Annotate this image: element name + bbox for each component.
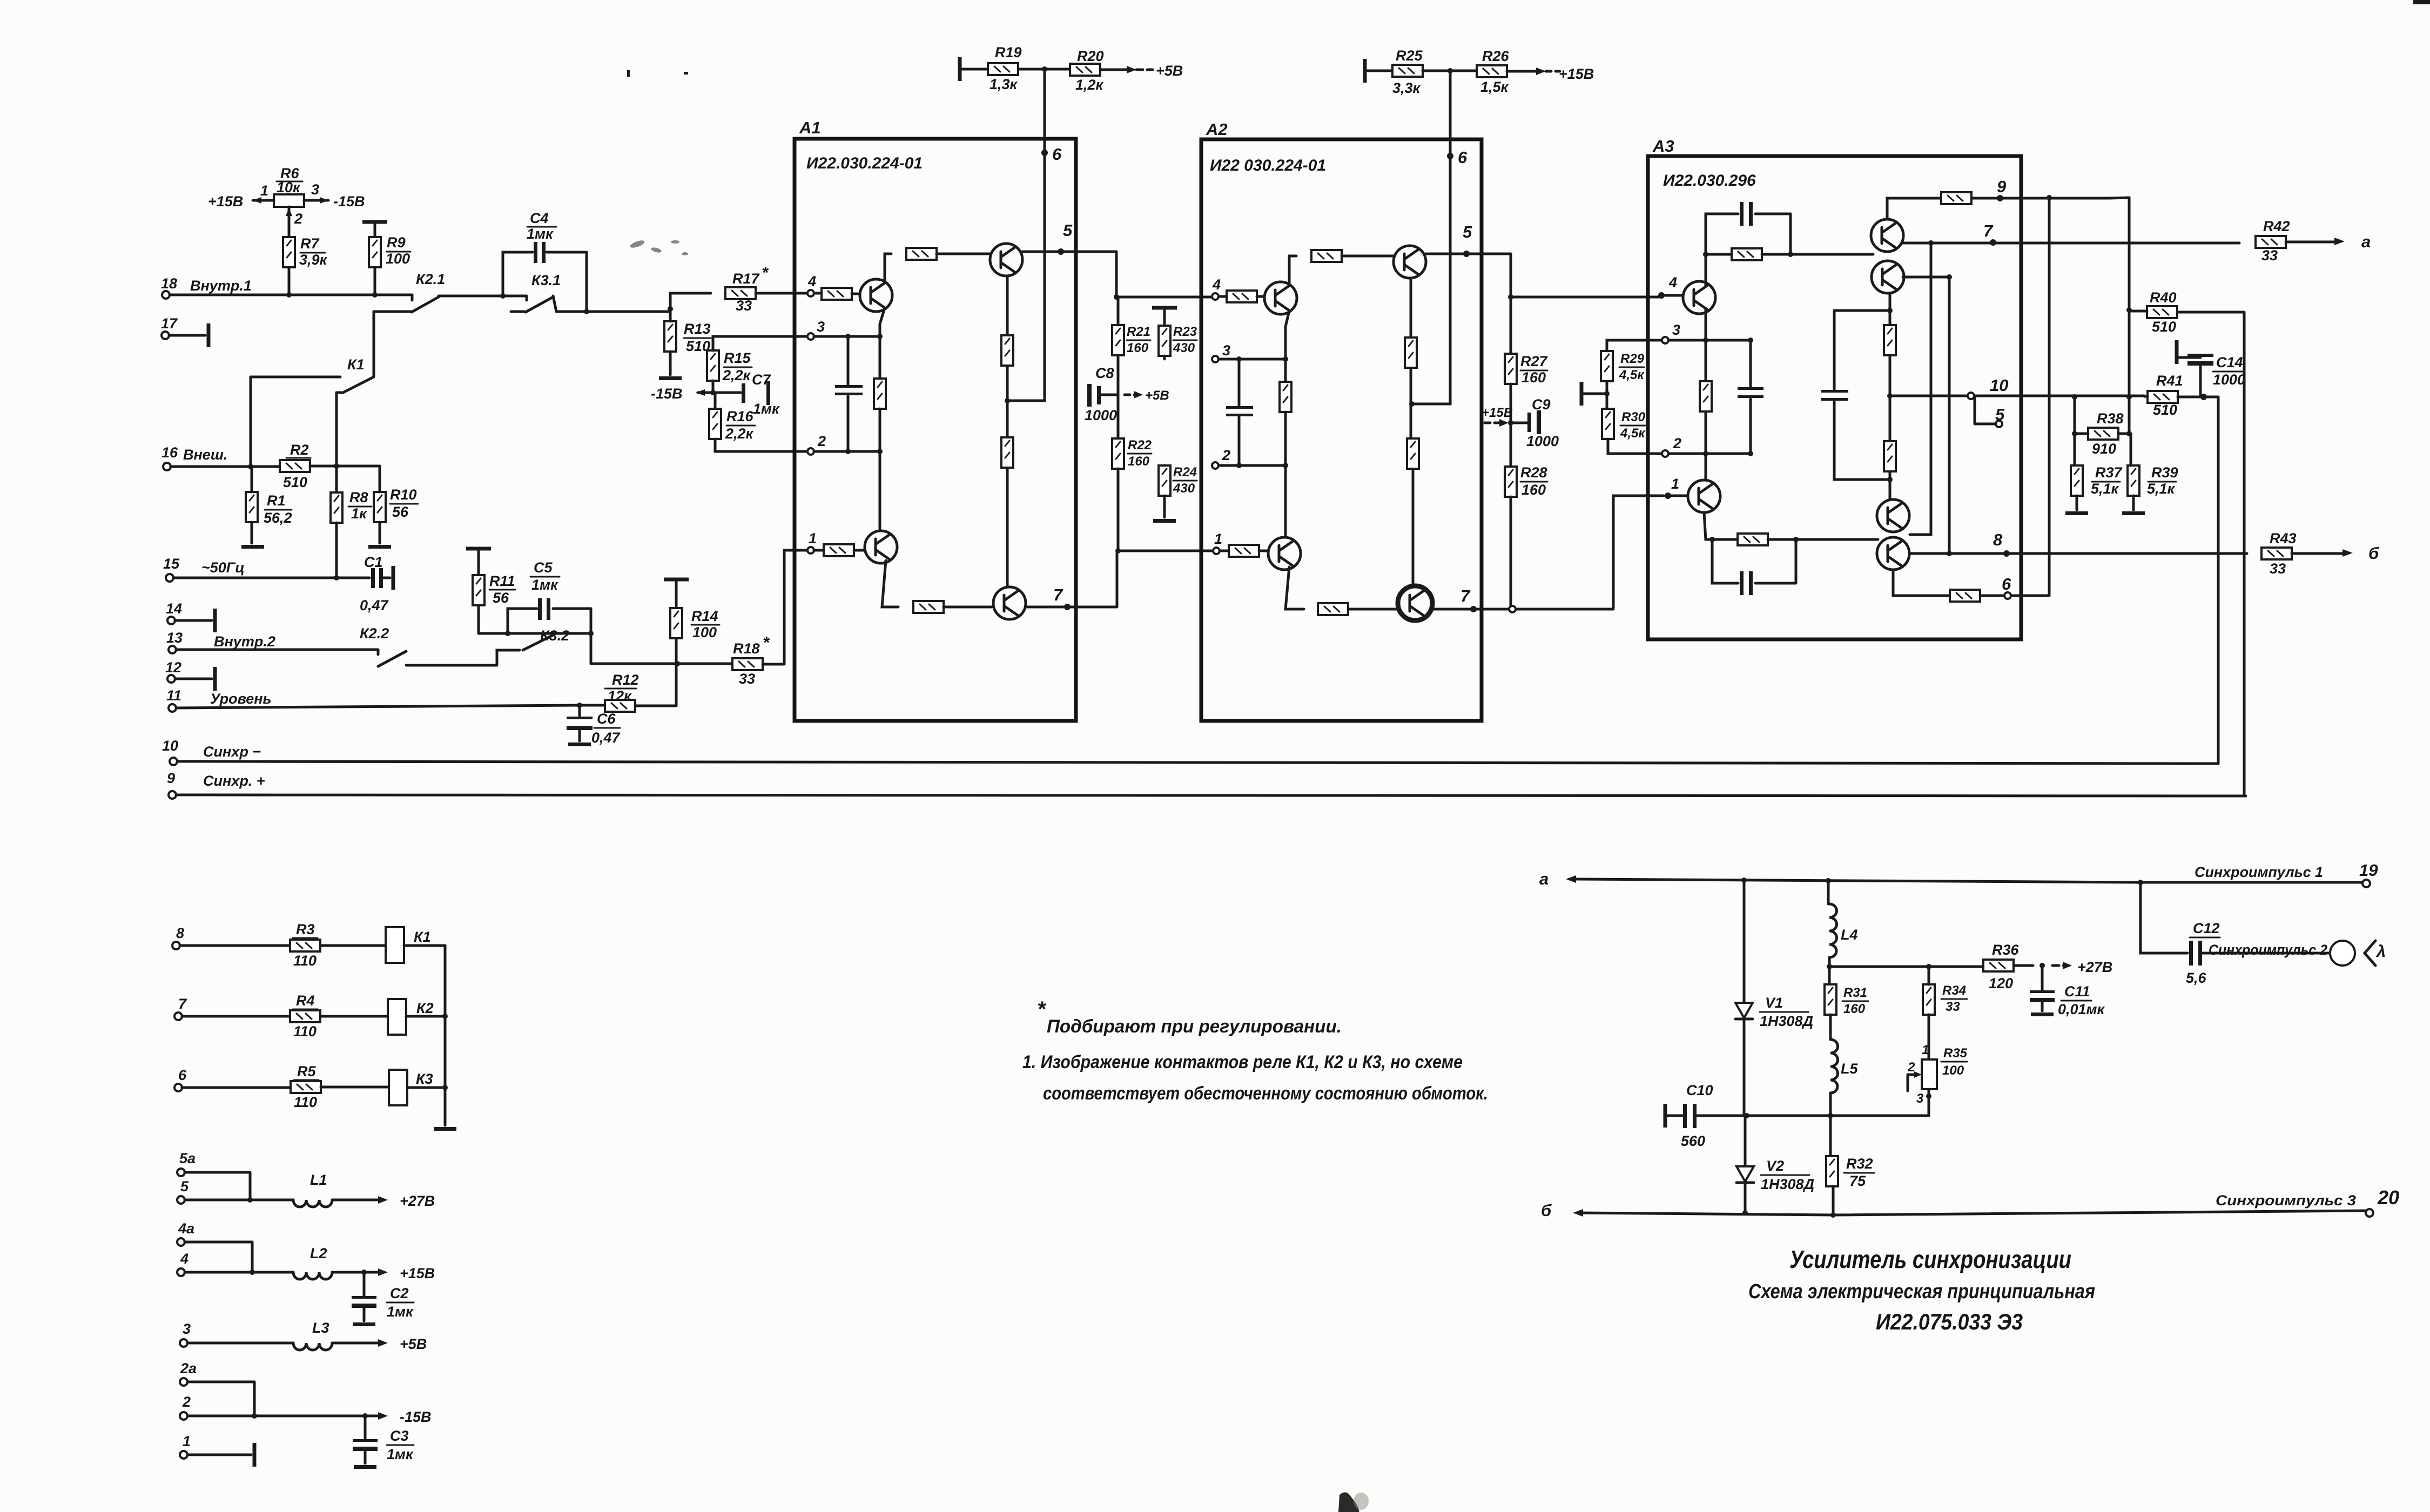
resistor R36 — [1983, 960, 2014, 971]
svg-text:2,2к: 2,2к — [725, 426, 754, 442]
potentiometer R35 — [1922, 1059, 1937, 1089]
resistor R40 — [2147, 306, 2177, 318]
svg-text:+15В: +15В — [208, 193, 243, 210]
pin 4 of A3 — [1658, 292, 1665, 299]
svg-text:L3: L3 — [312, 1320, 329, 1336]
pin 17 — [161, 332, 169, 339]
svg-text:-15В: -15В — [400, 1409, 432, 1425]
svg-text:R2: R2 — [290, 442, 309, 458]
IC block A2 — [1201, 139, 1482, 721]
svg-text:11: 11 — [166, 687, 181, 704]
svg-text:Усилитель синхронизации: Усилитель синхронизации — [1789, 1245, 2071, 1273]
pin 8 wire of A3 — [1909, 552, 2247, 555]
svg-text:33: 33 — [736, 298, 752, 314]
svg-text:Синхр. +: Синхр. + — [203, 773, 265, 789]
pin 5 wire of A2 — [1426, 253, 1511, 255]
pin 13 — [169, 646, 176, 653]
capacitor C3 — [364, 1416, 367, 1439]
svg-text:160: 160 — [1128, 454, 1150, 469]
pin 1 of A3 — [1665, 492, 1671, 499]
svg-text:1к: 1к — [351, 505, 367, 522]
svg-text:Синхроимпульс 3: Синхроимпульс 3 — [2216, 1192, 2356, 1209]
svg-text:Синхр −: Синхр − — [203, 744, 261, 760]
svg-text:4,5к: 4,5к — [1620, 426, 1646, 441]
internal resistor left chain A1 — [874, 379, 886, 409]
relay coil K2 — [388, 999, 406, 1035]
middle chain A1 — [1006, 276, 1009, 585]
svg-text:10: 10 — [1990, 376, 2008, 395]
svg-text:2: 2 — [1673, 435, 1681, 451]
svg-text:К2: К2 — [416, 1000, 434, 1016]
svg-text:И22.075.033 Э3: И22.075.033 Э3 — [1876, 1309, 2023, 1334]
svg-text:R34: R34 — [1942, 983, 1966, 998]
svg-text:И22 030.224-01: И22 030.224-01 — [1210, 157, 1326, 174]
wire L4 tap line — [1829, 966, 1983, 968]
transistor T3 A1 — [990, 244, 1022, 276]
transistor TC A3 — [1872, 261, 1904, 293]
resistor R25 — [1392, 65, 1423, 77]
svg-text:соответствует обесточенному: соответствует обесточенному состоянию об… — [1043, 1083, 1488, 1104]
svg-text:К1: К1 — [347, 356, 365, 373]
svg-text:1: 1 — [1922, 1043, 1929, 1057]
wire T1 collector to top line A2 — [1289, 256, 1296, 286]
vertical TB out to TD base — [1910, 243, 1931, 535]
svg-text:56: 56 — [493, 590, 509, 606]
input resistor pin1 A2 — [1229, 545, 1259, 557]
svg-text:4: 4 — [1212, 276, 1221, 293]
scan artifact smudge — [629, 239, 688, 255]
relay coil K3 — [389, 1070, 407, 1105]
svg-text:3: 3 — [1672, 322, 1680, 338]
svg-text:-15В: -15В — [333, 193, 365, 210]
internal resistor top-left A3 — [1732, 248, 1762, 260]
pin 2a — [180, 1378, 187, 1386]
svg-text:С1: С1 — [364, 554, 383, 570]
svg-text:1000: 1000 — [2213, 372, 2245, 388]
svg-text:R40: R40 — [2150, 289, 2177, 306]
svg-text:R3: R3 — [296, 921, 315, 937]
pin 8 — [172, 942, 180, 949]
svg-text:R39: R39 — [2151, 464, 2178, 481]
pin 7 wire of A2 — [1431, 496, 1664, 609]
svg-text:Схема электрическая принципи: Схема электрическая принципиальная — [1748, 1280, 2095, 1303]
svg-text:Подбирают при регулировании.: Подбирают при регулировании. — [1047, 1016, 1342, 1037]
svg-text:+5В: +5В — [1145, 388, 1169, 403]
pin 10 wire of A3 — [1890, 395, 2144, 397]
svg-text:2,2к: 2,2к — [722, 367, 751, 383]
resistor R9 — [362, 220, 387, 224]
svg-text:510: 510 — [283, 474, 307, 490]
wire A2 pin5 to A3 pin4 — [1511, 254, 1659, 297]
svg-text:6: 6 — [178, 1067, 187, 1083]
resistor R29 — [1601, 351, 1613, 381]
svg-text:1: 1 — [183, 1433, 191, 1449]
svg-text:7: 7 — [1460, 586, 1471, 605]
wire sync plus line — [176, 795, 2246, 796]
svg-text:R19: R19 — [995, 44, 1022, 60]
middle chain A2 — [1411, 279, 1413, 585]
transistor T4 A2 — [1399, 587, 1431, 619]
scan artifact bottom blob — [1338, 1492, 1359, 1512]
svg-text:С6: С6 — [597, 711, 616, 727]
svg-text:3: 3 — [1222, 342, 1230, 359]
svg-text:0,47: 0,47 — [591, 730, 621, 746]
svg-text:R11: R11 — [489, 573, 515, 589]
bypass loop top-left A3 — [1706, 214, 1790, 254]
svg-text:Внутр.2: Внутр.2 — [214, 633, 275, 650]
svg-text:1: 1 — [809, 530, 817, 546]
svg-text:Внеш.: Внеш. — [183, 447, 227, 463]
node R7 junction — [286, 292, 292, 298]
svg-text:75: 75 — [1849, 1173, 1866, 1189]
transistor T1 A1 — [860, 279, 892, 312]
pin 6 — [174, 1084, 182, 1091]
wire K3.2 output to R18 — [591, 663, 731, 665]
wire sync minus line — [177, 761, 2218, 764]
svg-text:С3: С3 — [390, 1428, 409, 1444]
svg-text:V1: V1 — [1765, 995, 1783, 1011]
svg-text:С2: С2 — [390, 1285, 409, 1301]
svg-text:17: 17 — [161, 315, 178, 332]
internal resistor bottom-left A3 — [1738, 534, 1768, 545]
internal resistor bottom A2 — [1318, 603, 1348, 615]
svg-text:110: 110 — [293, 1023, 317, 1039]
svg-text:4: 4 — [180, 1251, 189, 1267]
transistor T1 A2 — [1264, 282, 1297, 314]
scan artifact top-right — [2413, 0, 2430, 4]
resistor R23 — [1159, 326, 1170, 356]
pin 5a — [177, 1169, 185, 1176]
svg-text:2: 2 — [1907, 1060, 1915, 1075]
svg-text:К1: К1 — [414, 929, 431, 945]
svg-text:120: 120 — [1989, 975, 2013, 991]
transistor T3 A2 — [1394, 246, 1426, 278]
svg-text:К3: К3 — [416, 1071, 433, 1087]
svg-text:R23: R23 — [1173, 325, 1197, 339]
svg-text:С14: С14 — [2216, 354, 2243, 370]
internal resistor top A1 — [906, 248, 937, 260]
resistor R38 — [2088, 428, 2118, 440]
svg-text:9: 9 — [167, 770, 175, 786]
svg-text:R12: R12 — [612, 672, 639, 688]
svg-text:а: а — [1539, 869, 1549, 888]
svg-text:R20: R20 — [1077, 48, 1104, 64]
svg-text:1Н308Д: 1Н308Д — [1760, 1013, 1813, 1029]
svg-text:R22: R22 — [1128, 438, 1152, 453]
transistor T2 A2 — [1268, 537, 1301, 570]
resistor R5 — [291, 1081, 321, 1093]
svg-text:λ: λ — [2375, 942, 2386, 961]
resistor R17 — [725, 287, 756, 299]
wire T2 emitter to bottom line A2 — [1285, 567, 1304, 609]
svg-text:И22.030.296: И22.030.296 — [1663, 172, 1756, 190]
svg-text:1,3к: 1,3к — [989, 76, 1018, 92]
svg-text:R21: R21 — [1127, 325, 1150, 339]
resistor R28 — [1505, 467, 1517, 497]
svg-text:R7: R7 — [300, 235, 320, 252]
diode V2 — [1744, 1116, 1747, 1165]
resistor R21 — [1112, 325, 1124, 355]
wire a line (sync pulse 1) — [1573, 879, 2362, 882]
svg-text:С8: С8 — [1095, 365, 1114, 381]
pin 9 — [169, 791, 176, 799]
resistor R31 — [1825, 984, 1836, 1015]
svg-text:8: 8 — [1993, 530, 2003, 549]
inductor L1 — [293, 1200, 332, 1207]
wire K2.1 to K3.1 — [439, 296, 527, 300]
svg-text:R27: R27 — [1520, 353, 1549, 369]
resistor R32 — [1826, 1156, 1838, 1186]
pin 3 — [180, 1339, 187, 1347]
middle chain A3 — [1889, 293, 1892, 500]
svg-text:160: 160 — [1843, 1002, 1866, 1016]
resistor R22 — [1112, 438, 1124, 469]
svg-text:R10: R10 — [390, 487, 417, 503]
internal resistor top A2 — [1311, 250, 1342, 262]
svg-text:13: 13 — [166, 630, 183, 646]
svg-text:6: 6 — [2002, 575, 2011, 593]
svg-text:И22.030.224-01: И22.030.224-01 — [806, 154, 923, 172]
svg-text:R30: R30 — [1621, 410, 1646, 424]
internal resistor bottom A1 — [913, 601, 944, 613]
diode V1 — [1743, 880, 1746, 1002]
node C4 loop left — [500, 293, 506, 299]
svg-text:5: 5 — [1995, 405, 2005, 424]
svg-text:14: 14 — [166, 600, 182, 617]
svg-text:510: 510 — [2153, 402, 2177, 418]
svg-text:2а: 2а — [180, 1360, 197, 1376]
svg-text:2: 2 — [294, 211, 302, 227]
wire TB collector to pin 9 — [1887, 198, 1943, 219]
svg-text:12к: 12к — [608, 688, 632, 704]
pin 4 — [177, 1268, 185, 1276]
svg-text:5: 5 — [180, 1178, 189, 1194]
resistor R19 — [988, 63, 1018, 75]
transistor TB A3 — [1871, 219, 1903, 252]
wire T1 emitter chain — [880, 308, 885, 378]
svg-text:1,2к: 1,2к — [1075, 77, 1104, 93]
transistor T2 A1 — [865, 531, 897, 563]
node 6 A2 — [1447, 153, 1453, 159]
svg-text:R14: R14 — [691, 608, 718, 624]
svg-text:R37: R37 — [2095, 464, 2123, 481]
pin 3 of A3 — [1662, 337, 1668, 343]
capacitor C10 — [1664, 1104, 1667, 1128]
svg-text:16: 16 — [161, 444, 178, 461]
svg-text:2: 2 — [1222, 447, 1230, 463]
wire TA collector up to top line — [1706, 254, 1732, 286]
svg-text:430: 430 — [1173, 341, 1195, 355]
svg-text:+15В: +15В — [400, 1265, 435, 1281]
svg-text:3,3к: 3,3к — [1392, 80, 1421, 96]
svg-text:5,1к: 5,1к — [2091, 481, 2119, 497]
pin 18 — [162, 291, 170, 299]
wire TF emitter to bottom line A3 — [1704, 512, 1738, 539]
svg-text:2: 2 — [182, 1394, 191, 1410]
pin 4a — [177, 1238, 185, 1246]
svg-text:0,47: 0,47 — [360, 597, 389, 613]
pin 16 — [163, 463, 171, 470]
svg-text:1мк: 1мк — [753, 401, 780, 417]
wire TA emitter chain A3 — [1705, 309, 1707, 480]
svg-text:5,1к: 5,1к — [2147, 481, 2176, 497]
svg-text:К2.1: К2.1 — [416, 271, 445, 287]
wire T2 emitter to bottom line — [882, 561, 898, 607]
wire K3.1 output to R17 — [553, 293, 711, 312]
svg-text:3: 3 — [1916, 1091, 1924, 1106]
svg-text:*: * — [763, 633, 770, 652]
svg-text:100: 100 — [692, 624, 717, 640]
svg-text:R25: R25 — [1396, 48, 1423, 64]
capacitor top-left A3 — [1740, 202, 1744, 226]
svg-text:R31: R31 — [1843, 986, 1867, 1000]
svg-text:20: 20 — [2377, 1186, 2399, 1209]
svg-text:1,5к: 1,5к — [1480, 79, 1509, 95]
svg-text:R8: R8 — [349, 489, 368, 505]
svg-text:510: 510 — [2152, 319, 2176, 335]
svg-text:5а: 5а — [179, 1150, 196, 1166]
pin 4 of A1 — [807, 290, 814, 296]
svg-text:R15: R15 — [724, 350, 751, 366]
svg-text:R13: R13 — [684, 321, 711, 337]
resistor R18 — [732, 658, 763, 670]
svg-text:-15В: -15В — [651, 386, 683, 402]
input resistor pin1 A1 — [824, 544, 854, 556]
svg-text:б: б — [1541, 1201, 1552, 1220]
svg-text:33: 33 — [1946, 1000, 1960, 1014]
input resistor pin4 A2 — [1227, 291, 1257, 302]
internal resistor pin9 A3 — [1941, 192, 1971, 204]
resistor R34 — [1923, 984, 1935, 1015]
svg-text:0,01мк: 0,01мк — [2058, 1001, 2105, 1017]
resistor R7 — [283, 237, 295, 267]
input resistor pin4 A1 — [822, 288, 852, 300]
power bar for R25 — [1363, 59, 1367, 83]
wire K1 lower contact chain — [335, 393, 338, 492]
svg-text:160: 160 — [1522, 369, 1546, 386]
pin 7 — [174, 1013, 182, 1020]
resistor R4 — [290, 1010, 320, 1022]
svg-text:1: 1 — [1214, 531, 1222, 547]
pin 12 — [167, 675, 175, 683]
wire A1 pin7 to A2 pin1 — [1115, 548, 1121, 553]
svg-text:+15В: +15В — [1559, 66, 1594, 82]
pin 10 — [170, 758, 177, 765]
transistor TE A3 — [1877, 537, 1909, 570]
svg-text:12: 12 — [165, 659, 181, 676]
svg-text:К3.2: К3.2 — [540, 627, 569, 644]
resistor R3 — [290, 940, 320, 951]
pin 3 of A1 — [807, 333, 814, 340]
pin 3 of A2 — [1212, 356, 1219, 362]
svg-text:+27В: +27В — [2077, 959, 2112, 975]
capacitor C11 — [2041, 966, 2044, 990]
svg-text:V2: V2 — [1766, 1158, 1784, 1174]
svg-text:100: 100 — [386, 251, 410, 267]
resistor R42 — [2256, 236, 2286, 248]
svg-text:7: 7 — [1053, 585, 1063, 604]
wire b line (sync pulse 3) — [1580, 1211, 2368, 1215]
node bus3 T1 — [877, 334, 883, 339]
svg-text:L4: L4 — [1841, 927, 1858, 943]
svg-text:5,6: 5,6 — [2186, 970, 2207, 986]
resistor R8 — [331, 492, 342, 523]
svg-text:+5В: +5В — [1156, 63, 1183, 79]
compensation loop A3 — [1834, 310, 1890, 480]
pin 7 wire of A1 — [1026, 551, 1117, 607]
svg-text:С9: С9 — [1532, 396, 1551, 413]
svg-text:R16: R16 — [726, 408, 754, 424]
connector sync pulse 2 — [2330, 941, 2355, 966]
scan artifact top marks — [627, 70, 630, 77]
resistor R43 — [2261, 548, 2292, 559]
svg-text:5: 5 — [1463, 222, 1472, 241]
wire C12 branch — [2140, 882, 2187, 953]
resistor R12 — [605, 700, 635, 712]
svg-text:9: 9 — [1997, 177, 2007, 196]
resistor R30 — [1602, 409, 1614, 439]
pin 7 wire of A3 — [1903, 242, 2239, 245]
svg-text:R38: R38 — [2097, 410, 2124, 427]
svg-text:R1: R1 — [267, 492, 286, 509]
svg-text:10: 10 — [162, 738, 178, 754]
svg-text:33: 33 — [739, 671, 755, 687]
svg-text:7: 7 — [178, 996, 187, 1012]
capacitor C2 — [363, 1272, 366, 1296]
svg-text:560: 560 — [1681, 1133, 1705, 1149]
svg-text:1. Изображение контактов рел: 1. Изображение контактов реле К1, К2 и К… — [1022, 1052, 1463, 1072]
resistor R26 — [1477, 65, 1507, 77]
svg-text:С5: С5 — [534, 559, 553, 576]
pin 1 of A1 — [807, 547, 814, 553]
relay coil K1 — [386, 927, 404, 963]
svg-text:3: 3 — [817, 319, 825, 335]
svg-text:430: 430 — [1173, 481, 1195, 496]
svg-text:С4: С4 — [530, 210, 549, 226]
svg-text:18: 18 — [161, 275, 177, 292]
svg-text:R18: R18 — [733, 640, 760, 657]
vertical TC out to pin8 line — [1903, 277, 1949, 553]
wire pin18 to K2.1 — [170, 295, 412, 300]
pin 15 — [166, 574, 173, 582]
pin 1 — [180, 1451, 187, 1459]
wire T1 emitter chain A2 — [1285, 310, 1289, 382]
svg-text:1мк: 1мк — [387, 1304, 414, 1320]
transistor TD A3 — [1877, 500, 1909, 532]
svg-text:6: 6 — [1458, 148, 1468, 167]
svg-text:+27В: +27В — [400, 1193, 435, 1209]
svg-text:А3: А3 — [1652, 137, 1674, 156]
svg-text:4: 4 — [807, 273, 816, 289]
svg-text:R26: R26 — [1482, 48, 1510, 64]
internal capacitor A2 — [1238, 359, 1241, 465]
svg-text:Синхроимпульс 2: Синхроимпульс 2 — [2209, 942, 2327, 958]
svg-text:1000: 1000 — [1526, 433, 1559, 449]
svg-text:1мк: 1мк — [387, 1446, 414, 1462]
svg-text:1: 1 — [260, 183, 268, 199]
pin 2 — [180, 1412, 187, 1420]
svg-text:10к: 10к — [277, 179, 301, 195]
node bus2 T1 chain — [877, 449, 883, 454]
svg-text:3: 3 — [183, 1321, 191, 1337]
IC block A3 — [1648, 156, 2021, 639]
svg-text:33: 33 — [2270, 561, 2286, 577]
svg-text:56: 56 — [392, 504, 409, 520]
svg-text:19: 19 — [2359, 861, 2378, 880]
node 6 — [1041, 150, 1048, 156]
svg-text:+15В: +15В — [1482, 406, 1513, 420]
svg-text:R32: R32 — [1846, 1156, 1873, 1172]
